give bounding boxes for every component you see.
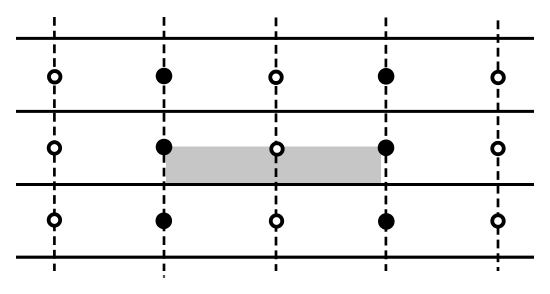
open atom row 2 col 3 (271, 143, 283, 155)
filled atom row 2 col 2 (156, 139, 173, 156)
shaded antiphase-boundary region (166, 147, 381, 186)
open atom row 2 col 1 (49, 142, 61, 154)
dashed vertical line col 4 (385, 18, 388, 272)
filled atom row 1 col 2 (156, 68, 173, 85)
lattice plane line 2 (16, 110, 534, 113)
open atom row 1 col 1 (49, 71, 61, 83)
dashed vertical line col 5 (497, 20, 500, 271)
open atom row 2 col 5 (492, 143, 504, 155)
filled atom row 3 col 2 (156, 213, 173, 230)
faint dash remnant below col 2 (163, 275, 165, 278)
filled atom row 1 col 4 (378, 68, 395, 85)
filled atom row 2 col 4 (378, 140, 395, 157)
open atom row 1 col 5 (492, 72, 504, 84)
lattice plane line 1 (16, 37, 534, 40)
lattice plane line 4 (16, 256, 534, 259)
dashed vertical line col 2 (163, 17, 166, 271)
lattice plane line 3 (16, 183, 534, 186)
open atom row 3 col 5 (492, 215, 504, 227)
dashed vertical line col 1 (53, 17, 56, 271)
open atom row 3 col 1 (49, 214, 61, 226)
open atom row 1 col 3 (270, 72, 282, 84)
open atom row 3 col 3 (271, 215, 283, 227)
filled atom row 3 col 4 (378, 213, 395, 230)
dashed vertical line col 3 (275, 18, 278, 272)
